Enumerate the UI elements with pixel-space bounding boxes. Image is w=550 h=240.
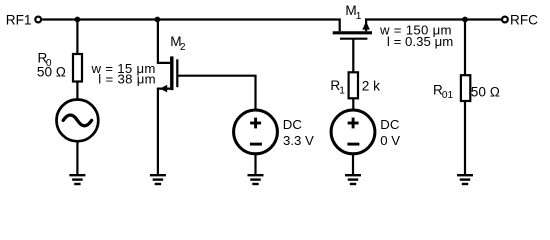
svg-text:3.3 V: 3.3 V — [283, 133, 314, 148]
svg-text:DC: DC — [380, 117, 400, 132]
svg-text:01: 01 — [442, 90, 454, 101]
svg-text:1: 1 — [339, 86, 345, 97]
svg-text:l = 38 μm: l = 38 μm — [98, 72, 156, 87]
svg-text:1: 1 — [356, 11, 362, 22]
svg-text:50 Ω: 50 Ω — [37, 65, 66, 80]
svg-text:RF1: RF1 — [6, 12, 32, 27]
svg-text:0 V: 0 V — [380, 133, 400, 148]
svg-text:2 k: 2 k — [362, 79, 380, 94]
svg-text:2: 2 — [180, 42, 186, 53]
svg-text:50 Ω: 50 Ω — [471, 84, 500, 99]
svg-text:RFC: RFC — [510, 12, 538, 27]
svg-text:l = 0.35 μm: l = 0.35 μm — [387, 34, 453, 49]
svg-text:DC: DC — [283, 117, 303, 132]
